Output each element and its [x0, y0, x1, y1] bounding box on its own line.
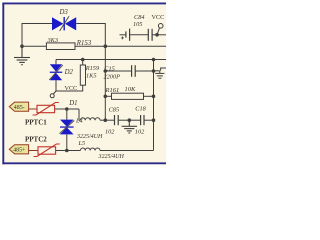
wire: right vertical bus	[153, 60, 155, 151]
diode D3 (bidirectional TVS)	[52, 16, 76, 31]
wire: 485- row corner down to L4	[79, 109, 80, 120]
resistor R159	[80, 65, 85, 85]
node: R161 right	[152, 95, 156, 99]
capacitor C15	[132, 65, 136, 77]
svg-text:10K: 10K	[125, 86, 137, 93]
svg-text:C18: C18	[135, 106, 146, 113]
fuse PPTC1	[33, 103, 59, 116]
svg-text:R153: R153	[76, 40, 92, 47]
node: right bus top	[152, 58, 156, 62]
node: D1 top	[65, 107, 69, 111]
capacitor (decoupling, next to C84)	[148, 29, 152, 41]
wire: 485- row PPTC1 to D1 node	[55, 108, 79, 110]
diode D2 (bidirectional TVS, vertical)	[49, 64, 62, 80]
svg-text:VCC: VCC	[65, 85, 78, 92]
ground (left)	[14, 46, 30, 64]
svg-text:D2: D2	[64, 69, 74, 76]
wire top: ground corner to D3 left	[22, 24, 52, 47]
node: bus B top	[104, 44, 108, 48]
node: C18 right	[152, 118, 156, 122]
wire: D1 top stem	[66, 109, 68, 120]
wire: VCC rail to R159 bottom	[56, 85, 83, 91]
wire: C18 to right bus	[144, 119, 154, 121]
wire: D1 bottom stem	[66, 134, 68, 150]
port 485-	[9, 102, 28, 111]
ground (middle, between C85 and C18)	[122, 120, 137, 133]
wire: D2 bottom stem	[55, 80, 57, 91]
wire: R161 left lead	[105, 95, 111, 97]
wire: C15 right lead	[135, 70, 153, 72]
svg-text:PPTC1: PPTC1	[25, 118, 47, 126]
node: R161 left	[104, 95, 108, 99]
wire: L5 to right bus corner	[100, 150, 154, 152]
wire: node B to right edge	[105, 45, 166, 47]
capacitor C85	[115, 115, 119, 125]
diode D1 (bidirectional TVS, vertical)	[60, 120, 75, 135]
svg-text:L5: L5	[78, 140, 86, 147]
svg-text:2200P: 2200P	[104, 73, 121, 80]
wire: C15 left lead	[105, 70, 131, 72]
svg-text:PPTC2: PPTC2	[25, 136, 47, 144]
wire: C86 to VCC node and right edge	[152, 34, 166, 36]
wire: ground node to R153 left	[22, 45, 46, 47]
inductor L4	[80, 118, 100, 120]
svg-text:3K3: 3K3	[47, 37, 59, 44]
wire: R159 top stem	[82, 60, 84, 66]
inductor L5	[80, 148, 100, 150]
wire: R153 right to node B	[75, 45, 105, 47]
wire: C84 to C86	[130, 34, 149, 36]
svg-text:L4: L4	[75, 118, 83, 125]
wire: port 485- to PPTC1	[29, 108, 37, 110]
ground (right, at C15)	[154, 71, 165, 78]
wire: middle horizontal net A	[56, 59, 166, 61]
svg-text:102: 102	[105, 129, 115, 136]
capacitor C18	[141, 115, 144, 125]
fuse PPTC2	[34, 144, 60, 157]
wire: 485+ row PPTC2 to L5	[56, 150, 81, 152]
wire: ground tap to C18	[129, 119, 140, 121]
node: ground/R153	[20, 44, 24, 48]
svg-text:C84: C84	[134, 14, 145, 21]
wire: vertical bus B	[104, 46, 106, 120]
node: C15 left	[104, 69, 108, 73]
svg-text:3225/4UH: 3225/4UH	[98, 153, 125, 160]
svg-text:105: 105	[133, 21, 142, 28]
node: C85 left	[104, 118, 108, 122]
capacitor C84 (polarized)	[126, 29, 130, 41]
svg-text:485-: 485-	[14, 105, 25, 111]
node: C15 right	[152, 69, 156, 73]
node: D1 bottom	[65, 149, 69, 153]
node: VCC top right	[155, 33, 159, 37]
svg-text:C85: C85	[109, 106, 120, 113]
wire: C84 row left stub	[120, 34, 126, 36]
svg-text:D1: D1	[68, 100, 77, 107]
svg-text:VCC: VCC	[152, 14, 165, 21]
wire: L4 to C85	[100, 119, 115, 121]
svg-text:R161: R161	[105, 87, 120, 94]
wire: port 485+ to PPTC2	[29, 150, 38, 152]
node: caps ground tap	[128, 118, 132, 122]
resistor R153	[46, 43, 75, 50]
power port VCC (middle)	[50, 91, 56, 98]
wire: stub off right edge above ground	[161, 68, 166, 71]
svg-text:1K5: 1K5	[86, 72, 97, 79]
power port VCC (top right)	[157, 24, 163, 35]
svg-text:102: 102	[135, 129, 145, 136]
resistor R161	[112, 93, 144, 99]
wire: C85 to ground tap	[118, 119, 129, 121]
wire: D2 top stem	[55, 60, 57, 65]
port 485+	[9, 145, 28, 154]
node: R159 top	[81, 58, 85, 62]
wire: D3 right lead to bus corner	[76, 24, 105, 47]
svg-text:R159: R159	[85, 65, 100, 72]
svg-text:D3: D3	[59, 9, 69, 16]
wire: R161 right lead	[144, 95, 154, 97]
svg-text:485+: 485+	[13, 148, 26, 154]
